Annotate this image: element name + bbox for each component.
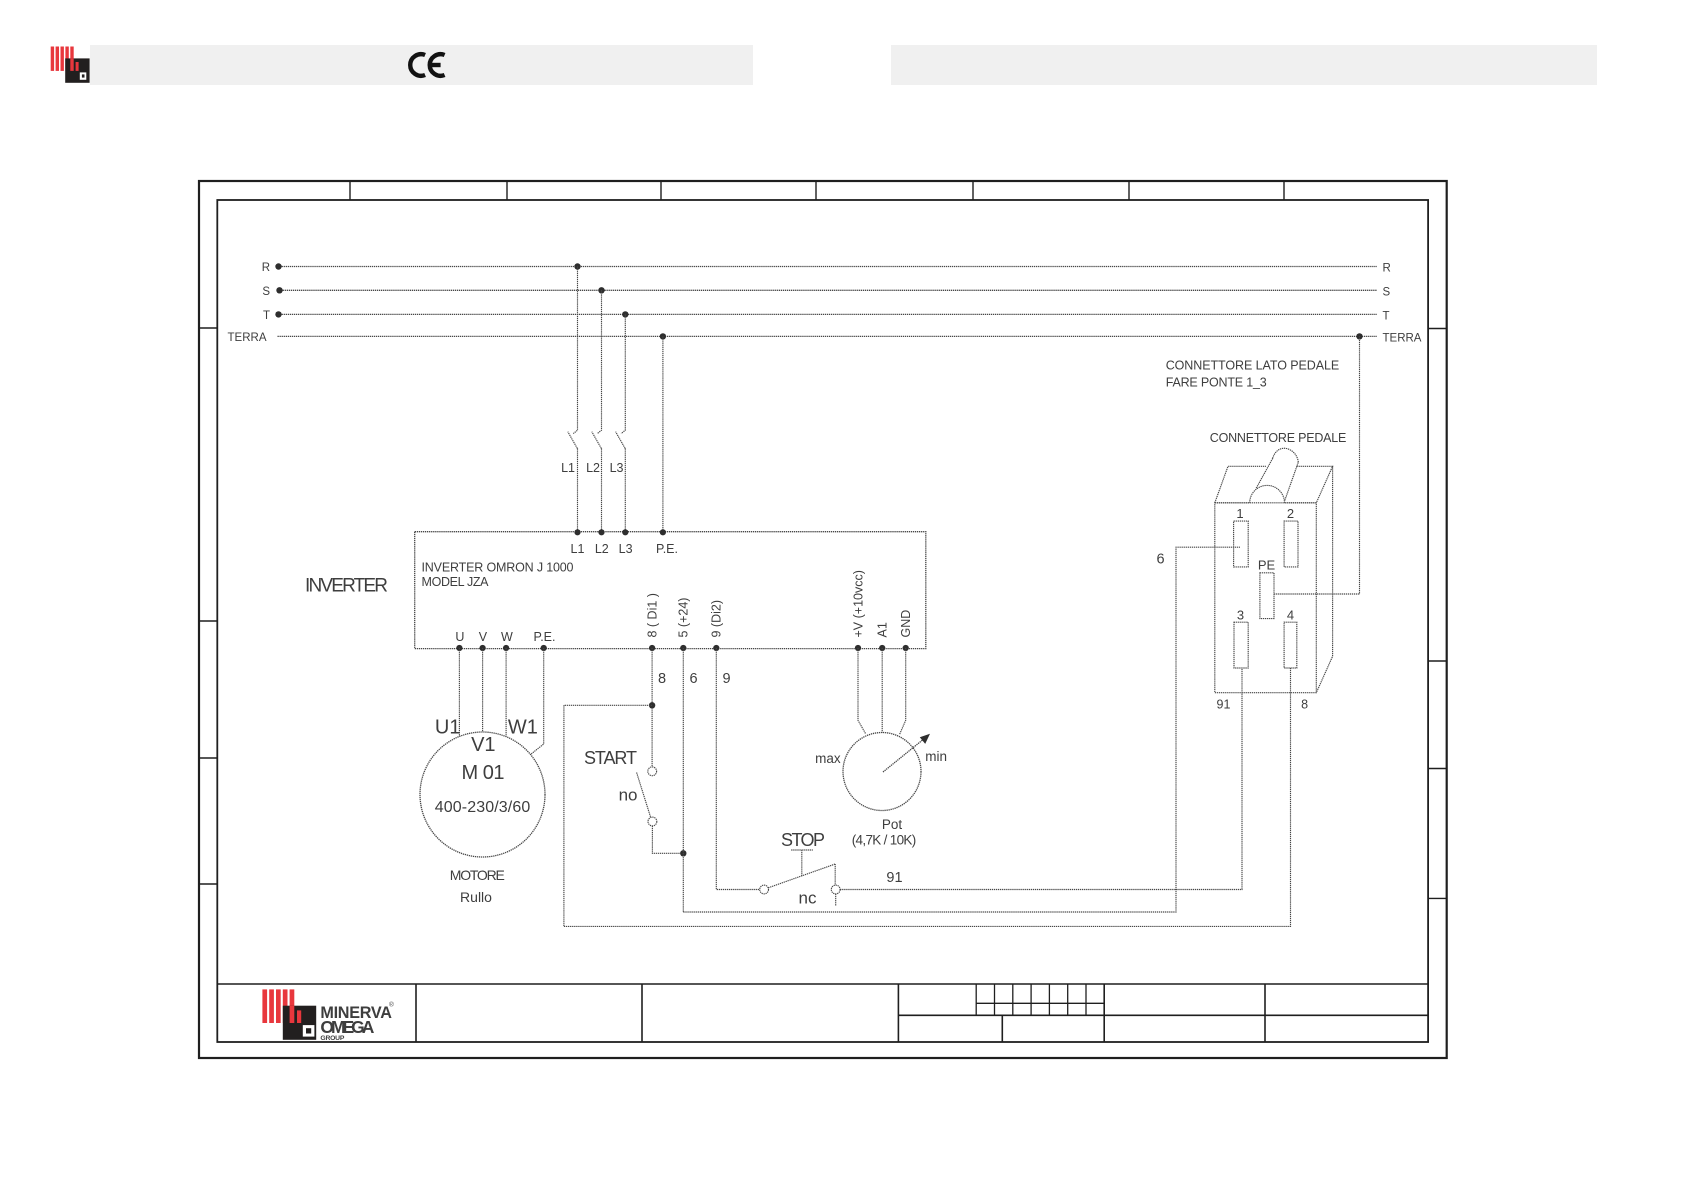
wire L2 to inverter (601, 448, 603, 531)
svg-text:FARE PONTE 1_3: FARE PONTE 1_3 (1166, 376, 1267, 390)
svg-text:4: 4 (1287, 608, 1294, 623)
wire left rail down (563, 705, 565, 926)
svg-text:5 (+24): 5 (+24) (677, 598, 691, 638)
svg-text:W: W (501, 630, 513, 644)
svg-text:INVERTER: INVERTER (305, 576, 388, 597)
bus line R (262, 262, 1391, 275)
switch STOP nc (760, 830, 840, 908)
left band ticks (199, 328, 217, 884)
wire 9Di2 down (716, 648, 759, 890)
svg-text:CONNETTORE PEDALE: CONNETTORE PEDALE (1210, 431, 1347, 445)
header gray bar right (891, 45, 1597, 85)
CE mark (410, 54, 444, 76)
svg-text:(4,7K / 10K): (4,7K / 10K) (852, 833, 917, 848)
switch L1 (561, 432, 577, 475)
title block grid (217, 984, 1428, 1042)
svg-text:S: S (262, 286, 270, 298)
node S-L2 (598, 287, 604, 293)
logo top-left red stripes (51, 47, 74, 71)
pin L2 (595, 529, 609, 556)
svg-text:MODEL JZA: MODEL JZA (422, 575, 490, 589)
svg-text:L3: L3 (610, 461, 624, 475)
pin V (479, 630, 488, 651)
switch START no (584, 748, 657, 826)
pin GND (899, 610, 913, 651)
svg-text:S: S (1383, 286, 1391, 298)
title block revision sub-grid (976, 984, 1104, 1015)
node TERRA-right (1356, 333, 1362, 339)
svg-text:400-230/3/60: 400-230/3/60 (435, 799, 531, 816)
svg-text:9 (Di2): 9 (Di2) (710, 600, 724, 638)
svg-text:GND: GND (899, 610, 913, 638)
wire R down to switch L1 (573, 267, 577, 434)
pedal connector J1 body (1215, 448, 1333, 692)
switch L3 (610, 432, 626, 475)
wire START bottom (652, 826, 683, 853)
Minerva logo black core (306, 1028, 311, 1033)
svg-text:W1: W1 (508, 717, 538, 739)
wire L3 to inverter (624, 448, 626, 531)
svg-text:TERRA: TERRA (1383, 332, 1422, 344)
bus line T (263, 310, 1390, 322)
svg-text:TERRA: TERRA (228, 332, 267, 344)
svg-text:L1: L1 (571, 542, 585, 556)
pedal pin 4 (1284, 608, 1297, 669)
svg-text:P.E.: P.E. (656, 542, 678, 556)
svg-text:GROUP: GROUP (320, 1035, 344, 1042)
pot wire +V (858, 648, 866, 734)
svg-text:U: U (455, 630, 464, 644)
node START-24 (680, 850, 686, 856)
svg-text:+V (+10vcc): +V (+10vcc) (851, 570, 865, 637)
svg-text:STOP: STOP (781, 830, 825, 850)
wire V to motor (482, 648, 484, 732)
svg-text:START: START (584, 748, 637, 768)
wire L1 to inverter (577, 448, 579, 531)
wire 8 rail bottom (564, 668, 1291, 926)
svg-text:max: max (815, 751, 841, 766)
svg-text:T: T (1383, 310, 1390, 322)
svg-text:min: min (925, 749, 947, 764)
pin 5 +24 (677, 598, 691, 652)
node T-L3 (622, 311, 628, 317)
motor M01 circle (420, 732, 545, 857)
svg-text:OMEGA: OMEGA (320, 1017, 374, 1037)
svg-text:R: R (1383, 263, 1391, 275)
bus line TERRA (228, 332, 1422, 344)
header gray bar left (46, 45, 753, 85)
svg-text:A1: A1 (876, 622, 890, 637)
pin 8 Di1 (646, 593, 660, 651)
wire TERRA to inverter PE (662, 336, 664, 531)
right band ticks (1428, 329, 1447, 899)
wire PE to TERRA (1274, 336, 1360, 594)
wire T down to switch L3 (621, 314, 625, 433)
svg-text:6: 6 (689, 671, 697, 687)
svg-text:1: 1 (1236, 506, 1243, 521)
pot wire A1 (881, 648, 883, 733)
pin W (501, 630, 513, 651)
pin 9 Di2 (710, 600, 724, 651)
svg-text:INVERTER OMRON J 1000: INVERTER OMRON J 1000 (422, 561, 574, 575)
wire 24 rail right (683, 547, 1240, 912)
pin PE bottom (533, 630, 555, 651)
svg-text:8: 8 (658, 671, 666, 687)
logo top-left white patch (46, 45, 90, 85)
wire PE to motor (531, 648, 544, 755)
outer frame (199, 181, 1447, 1058)
svg-text:9: 9 (722, 671, 730, 687)
svg-text:8: 8 (1301, 698, 1308, 712)
svg-text:PE: PE (1258, 558, 1276, 573)
pin +V (851, 570, 865, 651)
wire 91 rail (840, 668, 1242, 890)
wire branch to left rail (564, 704, 652, 706)
svg-text:3: 3 (1237, 608, 1244, 623)
pot wire GND (900, 648, 906, 735)
Minerva logo red bars over square (290, 1006, 302, 1023)
svg-text:®: ® (389, 1001, 394, 1009)
wire 8Di1 down (651, 648, 653, 767)
potentiometer Pot (815, 733, 947, 848)
svg-text:T: T (263, 310, 270, 322)
svg-text:M 01: M 01 (462, 762, 505, 784)
svg-text:91: 91 (886, 870, 902, 886)
svg-text:P.E.: P.E. (533, 630, 555, 644)
svg-text:2: 2 (1287, 506, 1294, 521)
svg-text:L2: L2 (586, 461, 600, 475)
logo top-left black core (82, 74, 85, 77)
pin L1 (571, 529, 585, 556)
svg-text:nc: nc (799, 889, 817, 908)
pin A1 (876, 622, 890, 651)
wire U to motor (458, 648, 460, 736)
logo top-left white inner square (80, 72, 87, 79)
svg-text:L1: L1 (561, 461, 575, 475)
pedal pin PE (1258, 558, 1276, 619)
svg-text:V: V (479, 630, 488, 644)
Minerva logo red stripes (262, 989, 294, 1023)
pedal pin 1 (1234, 506, 1249, 567)
switch L2 (586, 432, 601, 475)
pin PE top (656, 529, 678, 556)
svg-text:91: 91 (1217, 698, 1231, 712)
svg-text:CONNETTORE LATO PEDALE: CONNETTORE LATO PEDALE (1166, 359, 1340, 373)
svg-text:L2: L2 (595, 542, 609, 556)
Minerva logo black square (283, 1006, 316, 1040)
wire S down to switch L2 (597, 290, 601, 433)
svg-text:MOTORE: MOTORE (450, 867, 505, 883)
wire W to motor (505, 648, 507, 737)
svg-text:8 ( Di1 ): 8 ( Di1 ) (646, 593, 660, 637)
pin L3 (619, 529, 633, 556)
svg-text:V1: V1 (471, 734, 495, 756)
svg-text:Pot: Pot (882, 817, 903, 832)
svg-text:Rullo: Rullo (460, 889, 492, 905)
svg-text:L3: L3 (619, 542, 633, 556)
logo top-left black square (65, 58, 89, 82)
inverter OMRON J1000 box (415, 532, 926, 649)
node R-L1 (574, 263, 580, 269)
top band ticks (350, 181, 1284, 200)
svg-text:R: R (262, 262, 270, 274)
svg-text:no: no (619, 786, 638, 805)
pedal pin 3 (1234, 608, 1248, 669)
pedal pin 2 (1284, 506, 1298, 567)
svg-text:U1: U1 (435, 717, 461, 739)
pin U (455, 630, 464, 651)
wire 5+24 down (682, 648, 684, 912)
inner frame (217, 200, 1428, 1042)
svg-text:6: 6 (1156, 552, 1164, 568)
bus line S (262, 286, 1390, 298)
Minerva logo white inner square (303, 1025, 315, 1037)
node 8-branch (649, 702, 655, 708)
logo top-left red bars over square (70, 58, 78, 71)
node TERRA-PE (660, 333, 666, 339)
